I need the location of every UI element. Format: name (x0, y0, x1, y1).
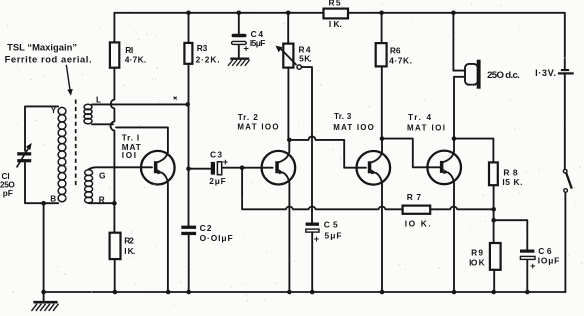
svg-text:pF: pF (3, 189, 13, 198)
svg-text:I5 K.: I5 K. (502, 177, 522, 187)
svg-text:R 5: R 5 (329, 0, 341, 8)
svg-text:IO K: IO K (469, 258, 485, 268)
svg-text:TSL “Maxigain”: TSL “Maxigain” (7, 42, 77, 53)
svg-text:Y: Y (51, 106, 57, 115)
svg-text:C 2: C 2 (200, 223, 212, 233)
svg-text:25O d.c.: 25O d.c. (487, 70, 520, 81)
svg-text:R: R (99, 194, 105, 204)
svg-text:I·3V.: I·3V. (535, 68, 556, 78)
svg-text:MAT IOI: MAT IOI (407, 123, 445, 132)
svg-text:Tr. 2: Tr. 2 (238, 113, 259, 122)
svg-text:Tr. I: Tr. I (122, 134, 139, 143)
svg-text:B: B (50, 195, 56, 204)
svg-text:O·OIμF: O·OIμF (200, 233, 233, 243)
svg-text:G: G (99, 170, 106, 180)
svg-text:MAT IOO: MAT IOO (333, 123, 374, 132)
svg-text:I K.: I K. (329, 19, 342, 29)
svg-text:Ferrite rod aerial.: Ferrite rod aerial. (5, 54, 92, 65)
svg-text:IOμF: IOμF (538, 256, 560, 266)
svg-text:R6: R6 (390, 45, 401, 55)
svg-text:+: + (223, 156, 229, 167)
svg-text:C 5: C 5 (324, 220, 338, 230)
svg-text:2μF: 2μF (209, 176, 226, 186)
svg-text:R 9: R 9 (471, 248, 483, 258)
svg-text:Tr. 4: Tr. 4 (408, 113, 431, 122)
svg-text:RI: RI (125, 45, 133, 55)
svg-text:4·7K.: 4·7K. (389, 55, 412, 65)
svg-text:+: + (243, 42, 249, 53)
svg-text:R 7: R 7 (407, 192, 422, 202)
svg-text:IOI: IOI (122, 151, 136, 160)
svg-text:+: + (530, 260, 536, 271)
svg-text:MAT IOO: MAT IOO (237, 122, 278, 131)
svg-text:Tr. 3: Tr. 3 (334, 112, 352, 121)
svg-text:5μF: 5μF (325, 231, 342, 241)
svg-text:R3: R3 (197, 43, 208, 53)
svg-text:+: + (314, 233, 320, 244)
svg-text:I K.: I K. (124, 246, 135, 256)
svg-text:R2: R2 (124, 235, 134, 245)
svg-text:R 8: R 8 (503, 168, 518, 178)
svg-text:2·2K.: 2·2K. (196, 55, 220, 65)
svg-text:I5μF: I5μF (250, 38, 266, 48)
svg-text:4·7K.: 4·7K. (125, 55, 147, 65)
svg-text:L: L (96, 95, 101, 104)
svg-text:5 K.: 5 K. (299, 54, 312, 64)
